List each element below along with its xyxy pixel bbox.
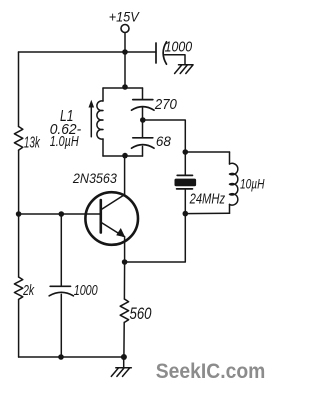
wire 10uH bottom bbox=[185, 212, 229, 214]
inductor 10uH bbox=[230, 152, 238, 213]
transistor base bar bbox=[100, 200, 103, 233]
resistor 2k bbox=[14, 277, 22, 299]
resistor 13k bbox=[14, 127, 22, 151]
svg-text:24MHz: 24MHz bbox=[189, 192, 226, 208]
svg-text:560: 560 bbox=[130, 304, 152, 323]
junction dot tank bottom bbox=[122, 153, 128, 159]
wire base bbox=[19, 213, 100, 215]
capacitor 1000 top right curved plate bbox=[163, 42, 166, 64]
junction dot supply node bbox=[122, 49, 128, 55]
junction dot base node left bbox=[16, 211, 22, 217]
wire emitter to 560 bbox=[123, 262, 125, 299]
capacitor 270 bbox=[132, 100, 155, 111]
wire left rail middle bbox=[18, 150, 20, 214]
svg-text:1000: 1000 bbox=[74, 283, 98, 299]
wire divider to crystal branch bbox=[143, 120, 186, 152]
junction dot bottom rail bbox=[58, 354, 64, 360]
wire to 10uH top bbox=[185, 151, 229, 153]
wire base branch down bbox=[60, 214, 62, 286]
svg-text:2k: 2k bbox=[22, 282, 35, 299]
inductor L1 bbox=[97, 88, 103, 156]
wire left rail bottom bbox=[18, 299, 20, 357]
svg-text:68: 68 bbox=[156, 133, 171, 149]
svg-text:1000: 1000 bbox=[165, 39, 193, 56]
wire supply terminal to top rail bbox=[124, 33, 126, 52]
transistor Q1 circle bbox=[85, 192, 138, 245]
junction dot emitter node bbox=[122, 259, 128, 265]
wire left rail upper bbox=[18, 52, 20, 127]
transistor emitter diagonal bbox=[101, 223, 123, 237]
wire left rail lower bbox=[18, 214, 20, 277]
wire tank top bbox=[103, 87, 143, 89]
svg-text:270: 270 bbox=[154, 97, 177, 113]
svg-text:+15V: +15V bbox=[109, 9, 140, 25]
wire crystal bottom lead bbox=[184, 189, 186, 214]
wire tank bottom bbox=[103, 155, 143, 157]
transistor collector diagonal bbox=[101, 195, 124, 210]
wire emitter node to crystal branch bbox=[125, 214, 186, 262]
wire emitter bbox=[124, 237, 126, 263]
capacitor 1000 top left plate bbox=[155, 43, 157, 63]
svg-text:1.0µH: 1.0µH bbox=[50, 133, 79, 150]
wire top rail bbox=[19, 51, 157, 53]
capacitor 1000 bottom bbox=[49, 286, 73, 296]
wire supply node down to tank bbox=[124, 52, 126, 88]
junction dot capacitor divider bbox=[140, 117, 146, 123]
crystal Y1 24MHz bbox=[175, 175, 197, 189]
ground bottom bbox=[111, 357, 131, 376]
junction dot base branch bbox=[59, 211, 65, 217]
svg-text:SeekIC.com: SeekIC.com bbox=[156, 359, 265, 383]
wire tank right lower bbox=[142, 146, 144, 156]
wire capacitor to ground rail bbox=[60, 294, 62, 357]
junction dot crystal top bbox=[183, 149, 189, 155]
wire 560 to ground rail bbox=[123, 322, 125, 357]
resistor 560 bbox=[120, 299, 128, 322]
wire tank right upper bbox=[142, 88, 144, 100]
junction dot tank top bbox=[122, 84, 128, 90]
svg-text:13k: 13k bbox=[24, 135, 41, 152]
junction dot crystal bottom bbox=[183, 211, 189, 217]
wire crystal top lead bbox=[184, 152, 186, 175]
svg-text:10µH: 10µH bbox=[240, 176, 265, 192]
wire between capacitors bbox=[142, 107, 144, 137]
ground top right bbox=[175, 65, 193, 74]
transistor emitter arrowhead bbox=[116, 228, 125, 237]
junction dot ground node bbox=[121, 354, 127, 360]
capacitor 68 bbox=[132, 138, 155, 148]
wire bottom ground rail bbox=[19, 356, 124, 358]
wire collector bbox=[124, 156, 126, 195]
svg-text:2N3563: 2N3563 bbox=[72, 170, 117, 186]
wire capacitor to ground drop bbox=[165, 55, 186, 65]
adjustment arrow for L1 bbox=[89, 100, 95, 137]
+15V terminal circle bbox=[121, 25, 129, 33]
